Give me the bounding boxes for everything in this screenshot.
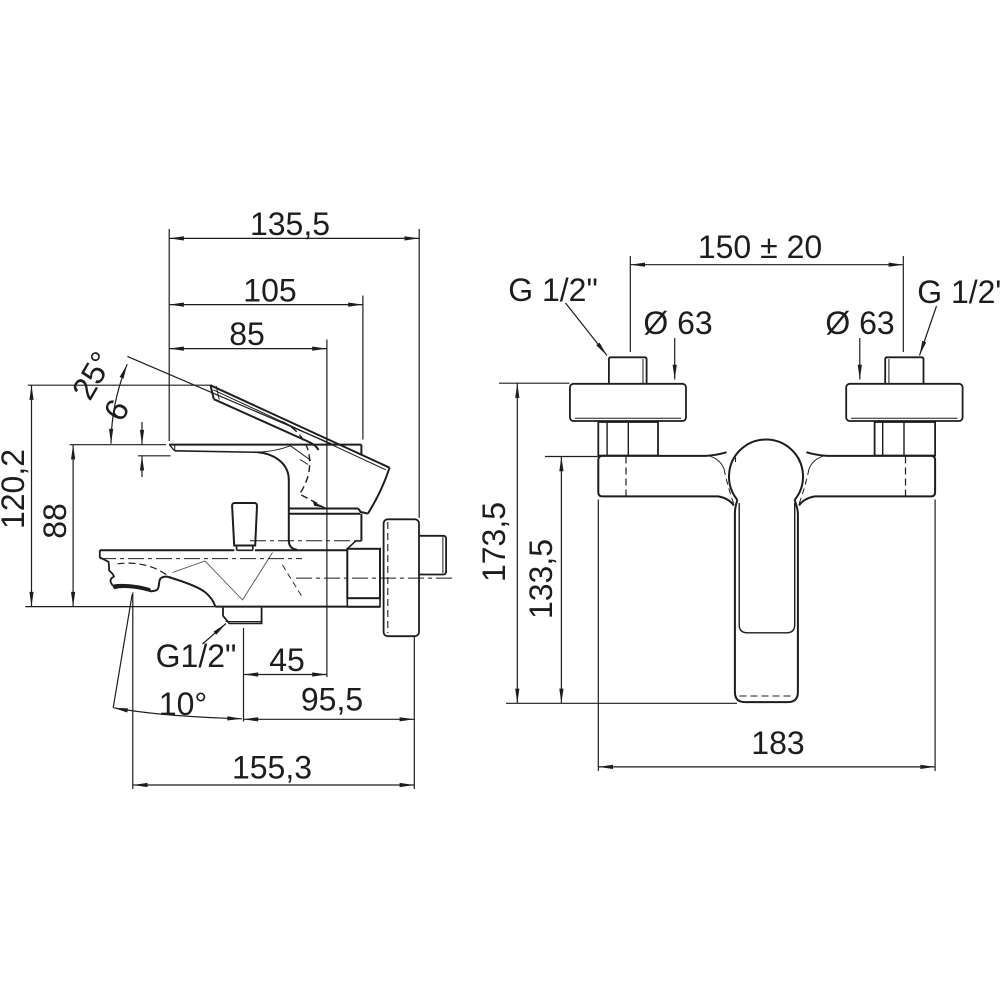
dim 85 [169,340,327,678]
svg-text:173,5: 173,5 [476,502,512,582]
band surface wrap right [809,456,825,469]
hidden cartridge dome (dashed) [282,422,321,506]
dim 6 [138,422,171,477]
dim 150 +-20 [630,256,903,352]
left hex nut [598,422,658,456]
dim 10 degrees [113,594,242,719]
spout base top edge [100,549,347,551]
svg-text:G1/2": G1/2" [156,638,237,674]
svg-text:155,3: 155,3 [232,750,312,786]
spout tip profile [100,550,114,585]
dim 133,5 [545,457,598,704]
diverter knob [232,503,257,550]
dim 105 [169,296,363,440]
hidden pipe lines in band [625,457,627,496]
svg-text:120,2: 120,2 [0,449,31,529]
body top plate (side) [169,445,361,465]
centerline wall pipe axis [296,577,452,579]
svg-text:45: 45 [269,642,305,678]
dim 173,5 [499,383,737,703]
band surface wrap left [708,456,724,469]
svg-text:85: 85 [229,316,265,352]
lever column (front) [735,500,798,702]
bottom port G1/2 [223,608,262,624]
right pipe stub [885,357,923,384]
union nut (side) [347,549,380,607]
body band (front) [598,452,935,505]
dim 25 degrees [111,356,333,444]
dim 45 [244,628,327,722]
lever handle (side) [211,385,390,513]
svg-text:G 1/2": G 1/2" [917,274,1000,310]
dim 88 [70,445,166,607]
spout base bottom edge [215,606,379,608]
svg-text:Ø 63: Ø 63 [825,305,894,341]
svg-text:95,5: 95,5 [301,682,363,718]
right escutcheon [846,384,962,421]
svg-text:105: 105 [243,273,296,309]
wall connection nipple (side) [419,536,446,575]
body neck curve (side) [258,452,297,550]
aerator [113,585,151,592]
svg-text:135,5: 135,5 [250,206,330,242]
svg-text:183: 183 [751,725,804,761]
svg-text:88: 88 [37,503,73,539]
lever ball (front) [729,440,803,500]
left escutcheon [570,384,686,421]
base internal thin lines [173,553,273,601]
dim 155,3 [133,593,415,790]
svg-text:Ø 63: Ø 63 [643,305,712,341]
svg-text:G 1/2": G 1/2" [508,272,598,308]
right hex nut [875,422,936,456]
svg-text:10°: 10° [159,686,207,722]
dim 120,2 [25,385,215,606]
wall escutcheon plate (side) [384,519,419,636]
centerline spout axis [100,558,302,560]
spout underside curve [151,577,216,607]
cartridge seam lines [289,509,362,549]
dim 95,5 [244,637,415,789]
left pipe stub [609,357,647,384]
svg-text:133,5: 133,5 [523,539,559,619]
svg-text:150 ± 20: 150 ± 20 [698,229,822,265]
centerline valve axis [250,540,361,542]
dim 183 [598,500,935,772]
dim 135,5 [169,229,419,518]
